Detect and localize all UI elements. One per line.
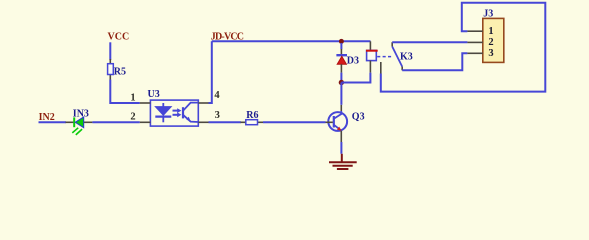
wire IN3 to U3 pin2 bbox=[92, 121, 139, 123]
diode D3 bbox=[336, 43, 359, 83]
wire JD-VCC rail bbox=[212, 40, 371, 42]
svg-text:K3: K3 bbox=[400, 52, 413, 63]
svg-text:Q3: Q3 bbox=[352, 112, 365, 123]
svg-text:D3: D3 bbox=[347, 56, 359, 67]
sheet background bbox=[0, 0, 589, 177]
svg-text:R6: R6 bbox=[246, 110, 258, 121]
ground bbox=[329, 154, 357, 169]
power port VCC bbox=[108, 32, 130, 43]
svg-text:U3: U3 bbox=[148, 89, 160, 100]
svg-text:R5: R5 bbox=[114, 67, 126, 78]
wire K3 coil bottom to junction bbox=[341, 73, 370, 83]
transistor Q3 bbox=[326, 105, 365, 142]
wire U3 pin3 to R6 bbox=[209, 121, 242, 123]
net label JD-VCC bbox=[211, 32, 244, 43]
junction node D3/K3/Q3 bbox=[339, 80, 344, 85]
connector J3 bbox=[467, 9, 503, 63]
svg-text:2: 2 bbox=[488, 37, 493, 48]
resistor R5 bbox=[108, 59, 126, 80]
wire R6 to Q3 base bbox=[263, 121, 326, 123]
svg-text:IN2: IN2 bbox=[39, 112, 55, 123]
svg-text:3: 3 bbox=[488, 48, 493, 59]
wire Q3 emitter to ground bbox=[340, 142, 342, 154]
opto-coupler U3 bbox=[140, 89, 209, 126]
svg-text:1: 1 bbox=[130, 93, 135, 104]
svg-text:3: 3 bbox=[215, 110, 220, 121]
wire K3 contact to J3 pin3 bbox=[402, 53, 467, 70]
svg-text:4: 4 bbox=[214, 90, 220, 101]
svg-text:2: 2 bbox=[130, 111, 135, 122]
wire K3 common loop to J3 pin1 bbox=[381, 3, 546, 92]
resistor R6 bbox=[241, 110, 264, 125]
svg-text:1: 1 bbox=[488, 26, 493, 37]
wire K3 NO top to J3 pin2 bbox=[392, 41, 467, 43]
wire IN2 to IN3 bbox=[39, 121, 67, 123]
svg-text:VCC: VCC bbox=[108, 32, 130, 43]
wire Q3 collector to junction bbox=[340, 83, 342, 105]
net label IN2 bbox=[39, 112, 55, 123]
svg-text:IN3: IN3 bbox=[73, 109, 89, 120]
led IN3 bbox=[66, 109, 93, 135]
wire VCC to R5 bbox=[109, 42, 111, 60]
wire JD-VCC down to U3 pin4 bbox=[209, 41, 212, 103]
relay K3 bbox=[366, 41, 413, 73]
junction node JD-VCC/D3 bbox=[339, 39, 344, 44]
wire R5 to U3 pin1 bbox=[110, 80, 140, 104]
